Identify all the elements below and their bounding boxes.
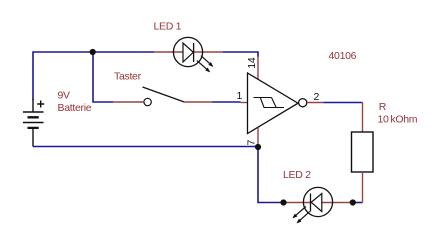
svg-text:10 kOhm: 10 kOhm (378, 113, 418, 125)
wire top rail right: LED1 to pin14 corner (223, 52, 258, 57)
inverter U1 hysteresis symbol (254, 98, 285, 108)
inverter U1 40106 triangle (248, 73, 299, 134)
node junction LED2 right (350, 199, 356, 205)
svg-text:Batterie: Batterie (58, 102, 92, 114)
wire pin2 to resistor corner (323, 102, 362, 104)
inverter U1 pin 7 stub (257, 128, 259, 145)
svg-text:LED 2: LED 2 (283, 169, 311, 181)
svg-text:40106: 40106 (329, 50, 357, 62)
node junction LED2 left (280, 199, 286, 205)
svg-text:7: 7 (246, 140, 258, 146)
svg-text:1: 1 (237, 90, 243, 102)
LED D1 light arrows (201, 56, 213, 66)
inverter U1 pin 14 stub (257, 56, 259, 80)
LED D2 light arrows (293, 207, 306, 218)
switch S1 contact circle (144, 98, 151, 105)
svg-text:14: 14 (246, 57, 258, 69)
inverter U1 pin 1 stub (241, 102, 248, 104)
switch S1 Taster left pin (113, 101, 143, 103)
svg-text:LED 1: LED 1 (154, 21, 182, 33)
resistor R top pin (362, 103, 364, 133)
battery B1 plates (23, 112, 44, 123)
wire LED2 right node to resistor bottom corner (353, 202, 363, 204)
LED D2 pin wire (284, 202, 353, 204)
resistor R bottom pin (362, 172, 364, 203)
node junction top rail (90, 49, 96, 55)
svg-text:R: R (379, 101, 387, 113)
resistor R body (352, 132, 374, 172)
battery B1 pins (black) (32, 99, 34, 147)
node junction pin7 (255, 144, 261, 150)
inverter U1 output bubble (299, 99, 307, 107)
LED D1 (LED 1) body (173, 37, 202, 66)
wire branch: junction down to Taster (93, 52, 113, 102)
wire Taster to pin1 (212, 101, 241, 103)
svg-text:9V: 9V (58, 90, 71, 102)
svg-text:Taster: Taster (114, 71, 142, 83)
wire pin7 node down and right to LED2 (258, 147, 284, 203)
wire top rail left: battery plus up and right to LED1 (33, 52, 154, 100)
LED D1 pin wire (154, 51, 223, 53)
switch S1 right pin (184, 101, 212, 103)
svg-text:2: 2 (314, 91, 320, 103)
battery plus sign (37, 101, 44, 108)
inverter U1 pin 2 stub (307, 102, 323, 104)
switch S1 lever (143, 87, 185, 102)
wire bottom rail: battery minus to pin7 node (33, 146, 258, 148)
LED D2 (LED 2) body (303, 187, 332, 216)
